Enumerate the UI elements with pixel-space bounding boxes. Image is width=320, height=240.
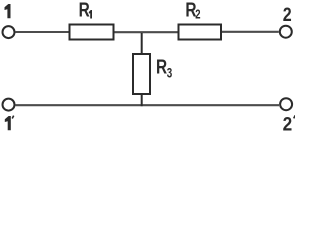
svg-text:R: R xyxy=(156,56,167,79)
svg-text:3: 3 xyxy=(167,65,173,81)
svg-text:2: 2 xyxy=(283,112,293,134)
svg-text:2: 2 xyxy=(283,3,292,25)
svg-text:R: R xyxy=(79,0,90,21)
svg-text:2: 2 xyxy=(195,8,200,22)
